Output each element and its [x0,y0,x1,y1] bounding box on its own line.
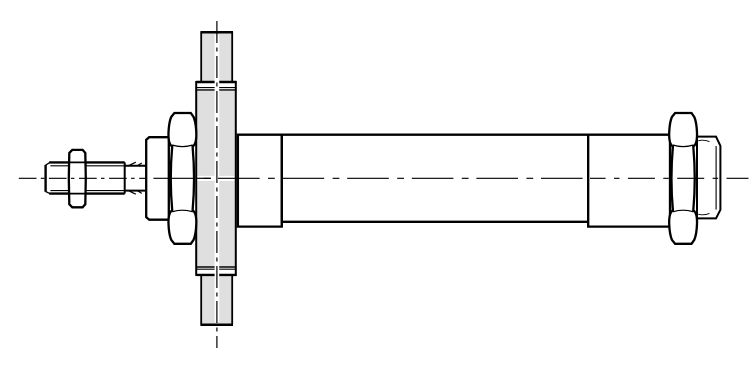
tube body fill [196,90,236,267]
mounting nut [168,113,196,244]
bottom stem left edge [200,275,202,325]
tip chamfer top [46,162,50,165]
horizontal centerline rod segment [18,177,147,179]
bottom collar inner line 2 [196,268,236,270]
bottom stem rod fill [201,275,232,325]
tip chamfer bottom [46,192,50,194]
rod shank [125,166,147,191]
top stem right edge [231,32,233,82]
top stem top face [200,31,233,34]
front head [238,135,282,227]
top stem rod fill [201,32,232,82]
rear step line [587,135,589,227]
rear hex nut chamfer arc bottom [673,210,694,212]
front step line [281,135,283,227]
rear end nut chamfer arc top [698,140,709,141]
rear head [588,135,670,227]
bottom collar face [196,274,236,276]
flange tube horizontal lines [196,32,236,325]
tube body left edge [195,81,197,276]
bottom collar inner line 1 [196,266,236,268]
piston rod thread minor lines [50,166,124,191]
thread end line [124,162,126,193]
horizontal centerline plate dash [197,177,212,179]
horizontal centerline rear segment [590,177,749,179]
locknut face line bottom [69,193,85,195]
vertical centerline [216,21,218,348]
barrel [282,135,588,222]
bottom stem bottom face [200,323,233,326]
top collar face [196,81,236,83]
top collar inner line 1 [196,87,236,89]
mounting nut chamfer arc bottom [172,210,193,212]
rear end nut chamfer arc bottom [698,213,709,214]
horizontal centerline barrel segment [146,177,590,179]
locknut [69,150,86,207]
tube body right edge [235,81,237,276]
rear end nut [697,137,720,219]
locknut face line top [69,161,85,163]
thread run-out marks [127,162,141,194]
rear end nut corner line [715,146,717,210]
mounting nut chamfer arc top [172,145,193,147]
top collar inner line 2 [196,89,236,91]
flange tube gray fills [196,32,236,324]
collar [146,137,169,220]
piston rod thread major lines [49,162,125,193]
vertical centerline white casing [215,35,220,323]
rear hex nut [669,113,697,244]
top stem left edge [200,32,202,82]
bottom stem right edge [231,275,233,325]
rear hex nut chamfer arc top [673,145,694,147]
flange tube vertical edges [196,32,236,325]
piston rod tip [46,162,50,193]
horizontal centerline white casing [197,176,234,181]
